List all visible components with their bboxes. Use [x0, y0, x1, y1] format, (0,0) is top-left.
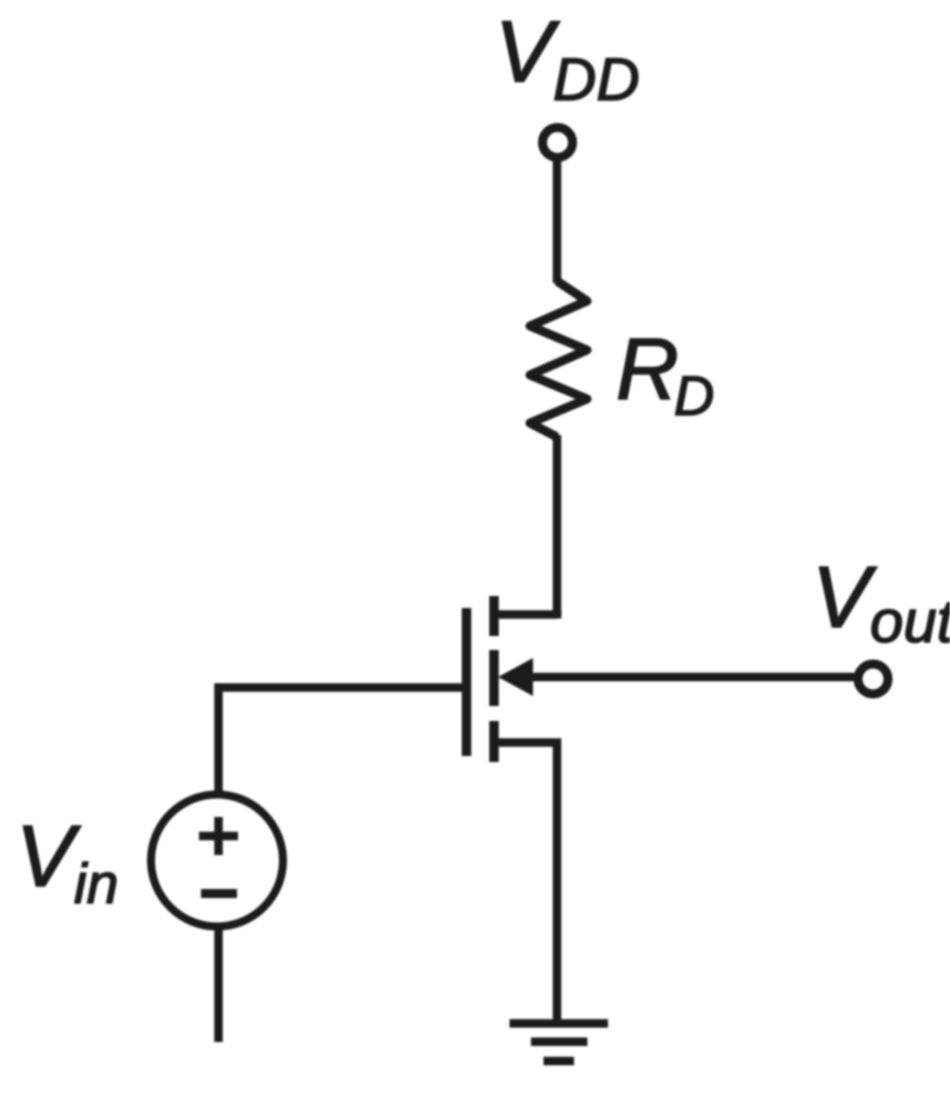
source Vin (circle) [151, 795, 283, 927]
wire resistor RD to drain of M1 [553, 435, 562, 619]
svg-text:Vin: Vin [16, 808, 118, 916]
transistor M1 channel segment (drain) [489, 596, 499, 636]
source Vin minus sign [201, 889, 237, 898]
ground middle bar [531, 1037, 587, 1046]
terminal Vout (open circle) [858, 664, 888, 694]
terminal VDD (open circle) [543, 128, 573, 158]
svg-text:Vout: Vout [812, 549, 950, 655]
wire below Vin (open end) [214, 930, 223, 1042]
transistor M1 gate bar [462, 608, 472, 756]
resistor RD [530, 281, 587, 437]
transistor M1 source lead [494, 743, 557, 1024]
wire body of M1 to Vout terminal [528, 673, 856, 682]
transistor M1 channel segment (body) [489, 650, 499, 706]
ground top bar [510, 1019, 609, 1028]
svg-text:RD: RD [616, 321, 714, 427]
transistor M1 channel segment (source) [489, 721, 499, 762]
wire gate of M1 to Vin [219, 688, 463, 793]
source Vin plus sign [199, 817, 238, 855]
transistor M1 drain lead [494, 615, 557, 619]
svg-text:VDD: VDD [495, 4, 640, 114]
transistor M1 body arrow [498, 658, 533, 696]
wire VDD to resistor RD [553, 161, 562, 283]
ground bottom bar [544, 1057, 575, 1066]
